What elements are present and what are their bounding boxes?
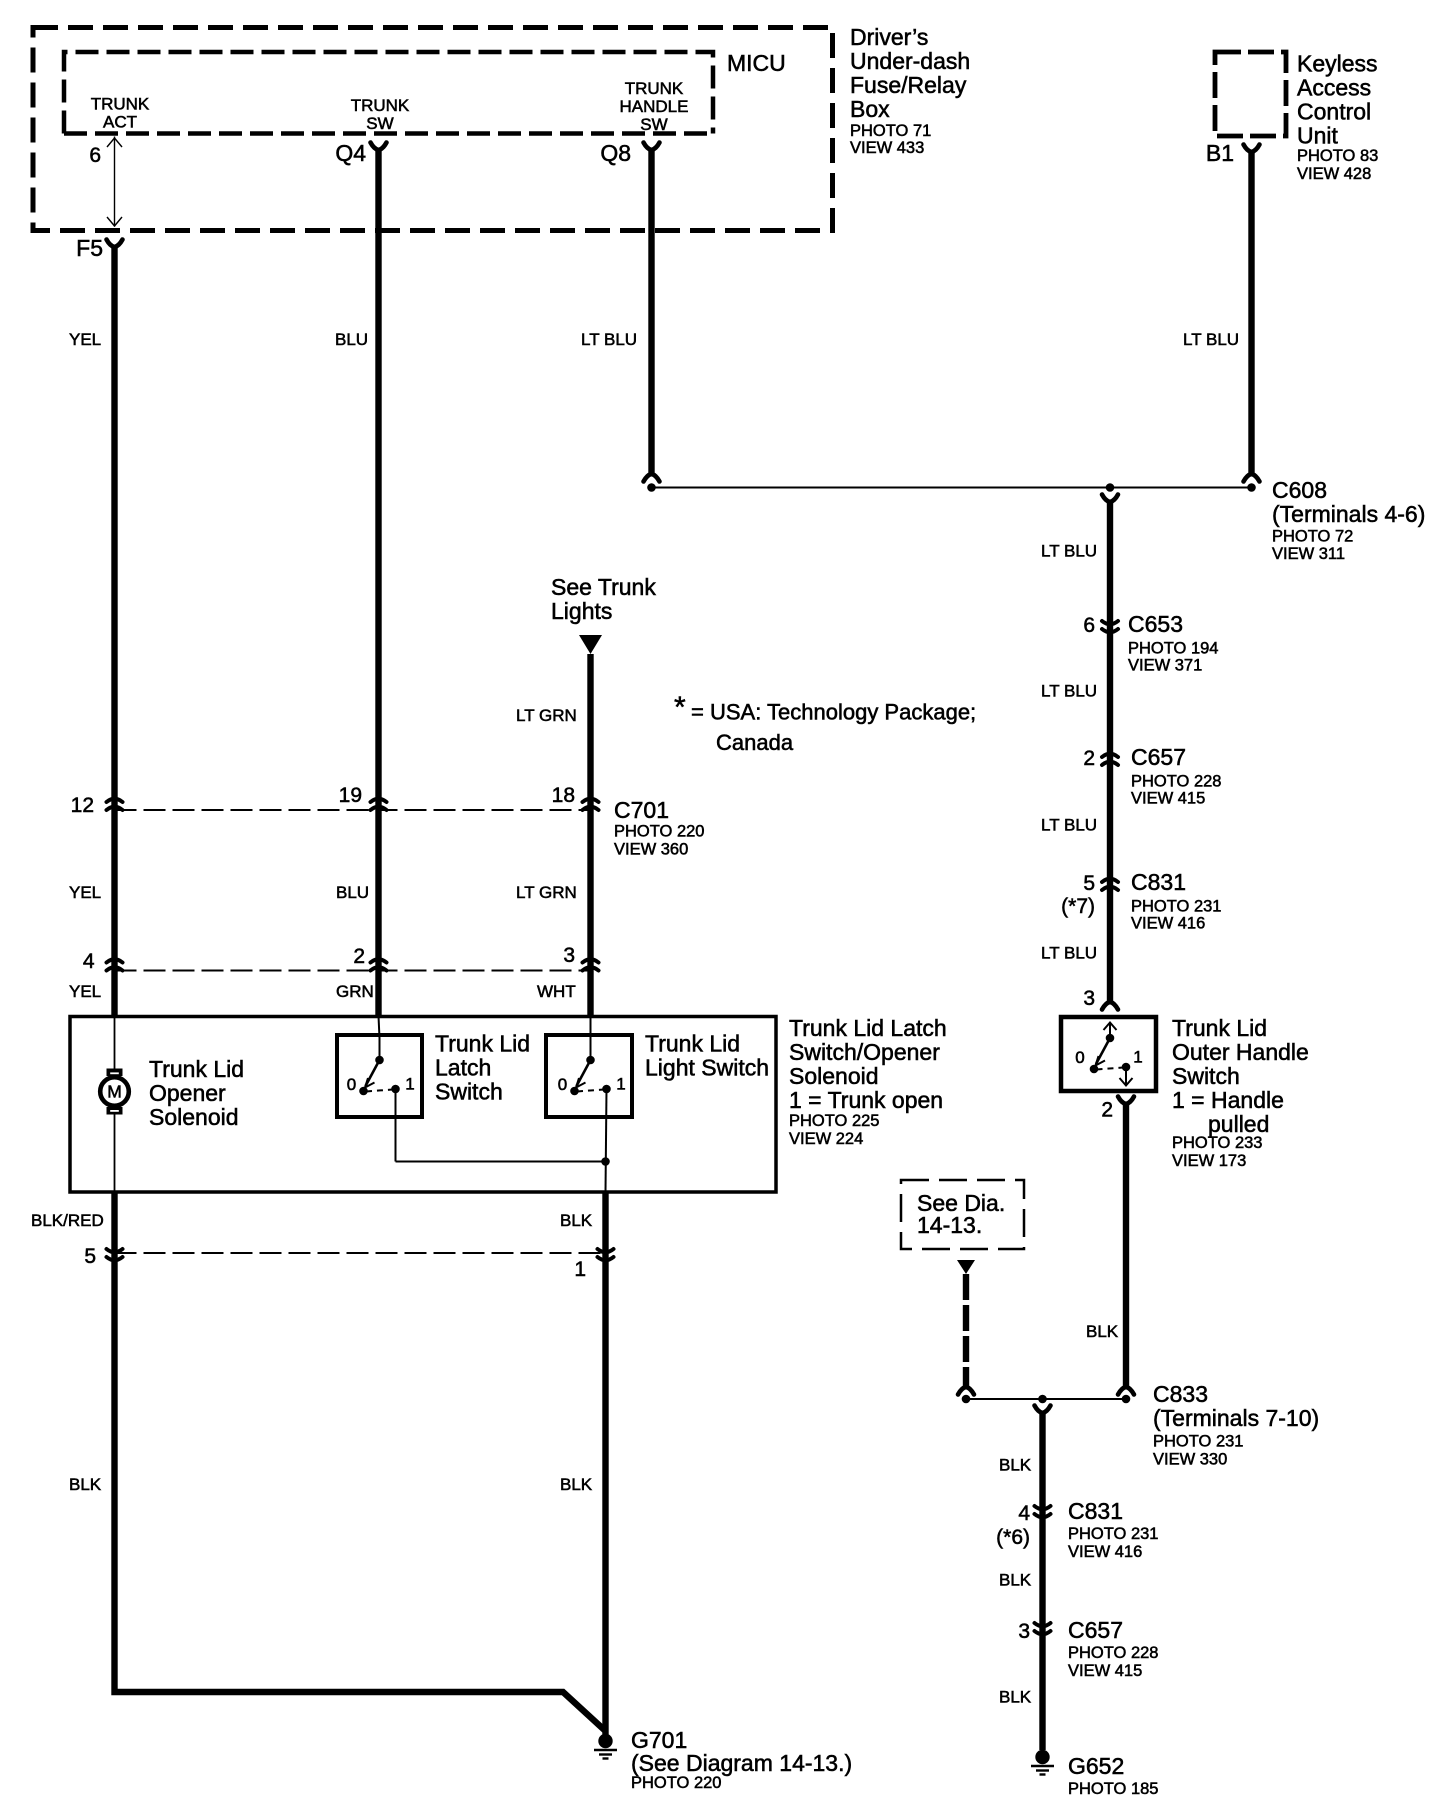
svg-text:1: 1	[1133, 1048, 1142, 1067]
pin 6 internal link arrow	[107, 137, 122, 227]
handle switch internal arrow up	[1104, 1023, 1117, 1038]
svg-text:B1: B1	[1206, 140, 1234, 166]
svg-text:BLK: BLK	[69, 1475, 102, 1494]
svg-text:M: M	[107, 1082, 122, 1102]
svg-text:Under-dash: Under-dash	[850, 48, 970, 74]
wire pin2 BLK	[1123, 1102, 1129, 1387]
wire left BLK/RED lower	[115, 1192, 606, 1731]
wire C833 horizontal	[966, 1398, 1126, 1400]
svg-text:C657: C657	[1131, 744, 1186, 770]
svg-text:(Terminals 4-6): (Terminals 4-6)	[1272, 501, 1425, 527]
connector terminal Q8 bottom	[644, 474, 660, 482]
svg-text:C833: C833	[1153, 1381, 1208, 1407]
wire Q8 LT BLU	[648, 149, 654, 474]
wire into light switch (thin)	[590, 1016, 592, 1060]
node latch/light junction	[601, 1157, 610, 1166]
wire C608 horizontal	[652, 487, 1252, 489]
svg-text:ACT: ACT	[103, 113, 137, 132]
motor M (trunk lid opener solenoid)	[107, 1069, 123, 1077]
connector symbol pin 4	[107, 959, 123, 970]
svg-text:14-13.: 14-13.	[917, 1212, 982, 1238]
svg-text:Solenoid: Solenoid	[149, 1104, 239, 1130]
svg-text:YEL: YEL	[69, 883, 101, 902]
svg-text:BLU: BLU	[335, 330, 368, 349]
svg-text:2: 2	[1101, 1099, 1113, 1122]
connector C701 symbol left	[107, 799, 123, 810]
svg-text:YEL: YEL	[69, 982, 101, 1001]
connector solenoid dashed line	[115, 970, 591, 972]
svg-text:0: 0	[1075, 1048, 1084, 1067]
svg-text:VIEW 416: VIEW 416	[1131, 915, 1205, 933]
svg-text:BLK: BLK	[999, 1688, 1032, 1707]
svg-text:Lights: Lights	[551, 598, 612, 624]
svg-text:5: 5	[1083, 872, 1095, 895]
node junction C608	[1106, 483, 1115, 492]
See Dia. 14-13. dashed box	[901, 1180, 1024, 1249]
connector terminal F5	[107, 240, 123, 248]
svg-text:LT GRN: LT GRN	[516, 883, 577, 902]
svg-text:TRUNK: TRUNK	[91, 95, 150, 114]
svg-text:Unit: Unit	[1297, 123, 1339, 149]
svg-text:Switch/Opener: Switch/Opener	[789, 1039, 940, 1065]
svg-text:Fuse/Relay: Fuse/Relay	[850, 72, 967, 98]
node pin2/C833	[1122, 1395, 1131, 1404]
svg-text:VIEW 371: VIEW 371	[1128, 657, 1202, 675]
svg-text:LT BLU: LT BLU	[581, 330, 637, 349]
svg-text:SW: SW	[640, 115, 667, 134]
trunk lid latch switch/opener solenoid box	[70, 1017, 776, 1193]
trunk lid outer handle switch box	[1061, 1017, 1156, 1091]
connector C653 symbol	[1102, 621, 1118, 632]
connector C701 symbol middle	[371, 799, 387, 810]
svg-text:Trunk Lid Latch: Trunk Lid Latch	[789, 1015, 947, 1041]
svg-text:TRUNK: TRUNK	[625, 79, 684, 98]
svg-text:Light Switch: Light Switch	[645, 1055, 769, 1081]
connector terminal Q8	[644, 143, 660, 151]
connector terminal pin 3	[1102, 1002, 1118, 1010]
wire light 1-contact down	[606, 1089, 607, 1192]
svg-text:Solenoid: Solenoid	[789, 1063, 879, 1089]
svg-text:VIEW 428: VIEW 428	[1297, 165, 1371, 183]
svg-text:= USA: Technology Package;: = USA: Technology Package;	[691, 700, 976, 725]
svg-text:YEL: YEL	[69, 330, 101, 349]
svg-text:LT BLU: LT BLU	[1183, 330, 1239, 349]
svg-text:Canada: Canada	[716, 730, 794, 755]
svg-text:C608: C608	[1272, 477, 1327, 503]
svg-text:Driver’s: Driver’s	[850, 24, 928, 50]
svg-text:Q8: Q8	[600, 140, 631, 166]
svg-text:1 = Trunk open: 1 = Trunk open	[789, 1087, 943, 1113]
wire latch 1-contact down	[395, 1089, 397, 1162]
wire junction chain LT BLU	[1107, 500, 1113, 1002]
svg-text:3: 3	[1018, 1620, 1030, 1643]
svg-text:4: 4	[83, 950, 95, 973]
svg-text:PHOTO 72: PHOTO 72	[1272, 528, 1353, 546]
svg-text:HANDLE: HANDLE	[620, 97, 689, 116]
svg-text:2: 2	[1083, 747, 1095, 770]
svg-text:SW: SW	[366, 114, 393, 133]
svg-text:PHOTO 231: PHOTO 231	[1068, 1525, 1158, 1543]
svg-text:Box: Box	[850, 96, 890, 122]
node B1/C608	[1247, 483, 1256, 492]
svg-text:VIEW 360: VIEW 360	[614, 841, 688, 859]
svg-text:Latch: Latch	[435, 1055, 491, 1081]
off-page triangle See Trunk Lights	[579, 635, 602, 654]
svg-text:12: 12	[71, 794, 94, 817]
svg-text:BLK/RED: BLK/RED	[31, 1211, 104, 1230]
svg-text:BLK: BLK	[999, 1571, 1032, 1590]
svg-text:PHOTO 220: PHOTO 220	[614, 823, 704, 841]
svg-text:VIEW 433: VIEW 433	[850, 139, 924, 157]
svg-text:GRN: GRN	[336, 982, 374, 1001]
off-page triangle See Dia	[957, 1260, 975, 1274]
svg-text:Keyless: Keyless	[1297, 51, 1378, 77]
handle switch mechanism	[1090, 1034, 1131, 1074]
svg-text:Outer Handle: Outer Handle	[1172, 1039, 1309, 1065]
svg-text:LT GRN: LT GRN	[516, 706, 577, 725]
svg-text:BLK: BLK	[560, 1475, 593, 1494]
svg-text:Trunk Lid: Trunk Lid	[149, 1056, 244, 1082]
connector terminal B1 bottom	[1244, 474, 1260, 482]
svg-text:VIEW 415: VIEW 415	[1068, 1662, 1142, 1680]
connector C831 lower symbol	[1035, 1506, 1051, 1517]
svg-text:6: 6	[89, 144, 101, 167]
svg-text:BLK: BLK	[999, 1456, 1032, 1475]
node Q8/C608	[647, 483, 656, 492]
svg-text:WHT: WHT	[537, 982, 576, 1001]
node See Dia/C833	[962, 1395, 971, 1404]
trunk lid latch switch box	[337, 1035, 422, 1117]
connector terminal pin2 bottom	[1118, 1387, 1134, 1395]
wire ground chain BLK	[1039, 1412, 1045, 1750]
latch switch mechanism	[359, 1056, 400, 1096]
svg-text:19: 19	[339, 784, 362, 807]
MICU (inner dashed box)	[64, 52, 713, 134]
connector terminal below C608 junction	[1102, 495, 1118, 503]
svg-text:VIEW 173: VIEW 173	[1172, 1152, 1246, 1170]
svg-text:Trunk Lid: Trunk Lid	[1172, 1015, 1267, 1041]
svg-text:PHOTO 194: PHOTO 194	[1128, 640, 1218, 658]
connector C701 dashed line	[115, 809, 591, 811]
svg-text:1: 1	[405, 1075, 414, 1094]
svg-text:3: 3	[1083, 987, 1095, 1010]
svg-text:C831: C831	[1068, 1498, 1123, 1524]
wire B1 LT BLU	[1248, 151, 1254, 474]
svg-text:2: 2	[353, 945, 365, 968]
svg-text:18: 18	[552, 784, 575, 807]
svg-text:*: *	[674, 691, 686, 724]
svg-text:VIEW 415: VIEW 415	[1131, 790, 1205, 808]
Keyless Access Control Unit (dashed box)	[1215, 52, 1286, 136]
svg-text:C657: C657	[1068, 1617, 1123, 1643]
svg-text:VIEW 224: VIEW 224	[789, 1130, 863, 1148]
svg-text:5: 5	[84, 1245, 96, 1268]
svg-text:PHOTO 71: PHOTO 71	[850, 122, 931, 140]
wire through motor (thin)	[114, 1016, 116, 1070]
connector C701 symbol right	[583, 799, 599, 810]
svg-text:C831: C831	[1131, 869, 1186, 895]
svg-text:1: 1	[574, 1258, 586, 1281]
wire Q4 BLU (middle vertical)	[375, 149, 381, 1016]
svg-text:BLU: BLU	[336, 883, 369, 902]
svg-text:VIEW 311: VIEW 311	[1272, 545, 1345, 563]
svg-text:F5: F5	[76, 235, 103, 261]
connector terminal Q4	[371, 143, 387, 151]
wire See Dia dashed	[963, 1274, 969, 1387]
light switch mechanism	[570, 1056, 611, 1096]
svg-text:Switch: Switch	[1172, 1063, 1240, 1089]
svg-text:Opener: Opener	[149, 1080, 226, 1106]
svg-text:C653: C653	[1128, 611, 1183, 637]
svg-text:1 = Handle: 1 = Handle	[1172, 1087, 1284, 1113]
Driver's Under-dash Fuse/Relay Box (outer dashed box)	[33, 28, 833, 231]
svg-text:(*7): (*7)	[1061, 895, 1095, 918]
ground G652	[1031, 1750, 1054, 1775]
handle switch internal arrow down	[1120, 1068, 1133, 1086]
wire latch to light (horizontal)	[396, 1161, 606, 1163]
svg-text:PHOTO 231: PHOTO 231	[1153, 1433, 1243, 1451]
wire into latch switch (thin)	[379, 1016, 380, 1038]
node mid C833	[1038, 1395, 1047, 1404]
svg-text:BLK: BLK	[560, 1211, 593, 1230]
svg-text:PHOTO 233: PHOTO 233	[1172, 1134, 1262, 1152]
svg-text:Q4: Q4	[335, 140, 366, 166]
svg-text:LT BLU: LT BLU	[1041, 944, 1097, 963]
svg-text:PHOTO 231: PHOTO 231	[1131, 898, 1221, 916]
svg-text:MICU: MICU	[727, 50, 786, 76]
svg-text:PHOTO 185: PHOTO 185	[1068, 1780, 1158, 1798]
svg-text:(Terminals 7-10): (Terminals 7-10)	[1153, 1405, 1319, 1431]
connector terminal See Dia bottom	[958, 1387, 974, 1395]
svg-text:LT BLU: LT BLU	[1041, 816, 1097, 835]
svg-text:PHOTO 83: PHOTO 83	[1297, 147, 1378, 165]
svg-text:G652: G652	[1068, 1753, 1124, 1779]
svg-text:4: 4	[1018, 1502, 1030, 1525]
svg-text:Trunk Lid: Trunk Lid	[645, 1031, 740, 1057]
connector terminal B1	[1244, 145, 1260, 153]
wire light switch BLK lower	[602, 1192, 608, 1735]
svg-text:PHOTO 220: PHOTO 220	[631, 1774, 721, 1792]
connector terminal below C833	[1035, 1406, 1051, 1414]
svg-text:Trunk Lid: Trunk Lid	[435, 1031, 530, 1057]
connector C657 symbol	[1102, 754, 1118, 765]
connector symbol pin 5	[107, 1249, 123, 1260]
svg-text:VIEW 416: VIEW 416	[1068, 1543, 1142, 1561]
connector terminal pin 2	[1118, 1097, 1134, 1105]
svg-text:See Trunk: See Trunk	[551, 574, 656, 600]
ground G701	[594, 1734, 617, 1759]
connector symbol pin 3	[583, 959, 599, 970]
svg-text:VIEW 330: VIEW 330	[1153, 1451, 1227, 1469]
svg-text:PHOTO 228: PHOTO 228	[1068, 1644, 1158, 1662]
wire F5 YEL (left vertical)	[111, 246, 117, 1016]
connector dashed line pins 5/1	[115, 1252, 606, 1254]
connector C657 lower symbol	[1035, 1623, 1051, 1634]
svg-text:(See Diagram 14-13.): (See Diagram 14-13.)	[631, 1750, 852, 1776]
trunk lid light switch box	[546, 1035, 632, 1117]
wire See Trunk Lights LT GRN	[587, 654, 593, 1016]
svg-text:0: 0	[558, 1075, 567, 1094]
svg-text:0: 0	[347, 1075, 356, 1094]
svg-text:LT BLU: LT BLU	[1041, 542, 1097, 561]
svg-text:(*6): (*6)	[996, 1526, 1030, 1549]
svg-text:Access: Access	[1297, 75, 1371, 101]
svg-text:1: 1	[616, 1075, 625, 1094]
svg-text:TRUNK: TRUNK	[351, 96, 410, 115]
svg-text:PHOTO 228: PHOTO 228	[1131, 773, 1221, 791]
svg-text:PHOTO 225: PHOTO 225	[789, 1112, 879, 1130]
connector C831 symbol	[1102, 879, 1118, 890]
svg-text:6: 6	[1083, 614, 1095, 637]
svg-text:C701: C701	[614, 797, 669, 823]
svg-text:LT BLU: LT BLU	[1041, 682, 1097, 701]
connector symbol pin 1	[598, 1249, 614, 1260]
connector symbol pin 2	[371, 959, 387, 970]
svg-text:Control: Control	[1297, 99, 1371, 125]
svg-text:Switch: Switch	[435, 1079, 503, 1105]
svg-text:3: 3	[563, 944, 575, 967]
svg-text:BLK: BLK	[1086, 1322, 1119, 1341]
